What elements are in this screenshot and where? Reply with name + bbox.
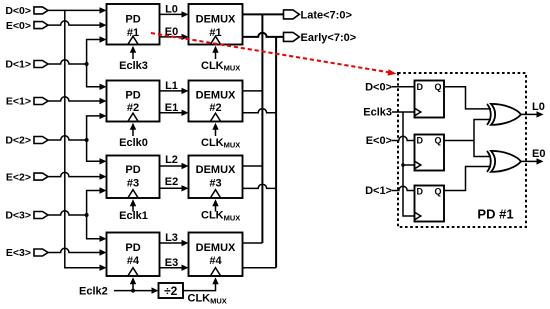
clock arrow Eclk0 into PD#2	[119, 123, 148, 149]
divider /2 box	[159, 283, 184, 298]
detail wire Eclk3 vertical to DFF2/DFF3 clk	[403, 112, 415, 216]
input pad D<0>	[5, 5, 48, 17]
PD #4	[107, 233, 160, 277]
Late bus vertical	[261, 14, 263, 243]
wire D<2> from pad to node (hop over D<0> vertical)	[48, 136, 87, 140]
XOR gate X2	[487, 151, 521, 172]
wire DEMUX#2 out2 to Early bus (hop)	[243, 109, 277, 113]
wire E2 PD#3 to DEMUX#3	[160, 176, 189, 192]
svg-text:DEMUX: DEMUX	[196, 164, 236, 176]
svg-text:DEMUX: DEMUX	[196, 242, 236, 254]
wire XOR1 output L0	[521, 101, 545, 118]
input pad D<3>	[5, 210, 48, 222]
wire divider to DEMUX#4 clock	[183, 277, 219, 290]
svg-text:D<0>: D<0>	[5, 5, 31, 17]
wire DEMUX#3 out1 to Late bus	[243, 165, 263, 167]
detail wire E<0> to DFF2 D (hop over Eclk3 vertical)	[392, 136, 415, 140]
wire L0 PD#1 to DEMUX#1	[160, 4, 189, 18]
wire E1 PD#2 to DEMUX#2	[160, 102, 189, 116]
node Eclk2 junction	[131, 289, 135, 293]
wire DEMUX#2 out1 to Late bus	[243, 90, 263, 92]
DEMUX #2	[189, 81, 243, 122]
wire D<1> from pad to node (hop over D<0> vertical)	[48, 60, 87, 64]
clock arrow CLKMUX into DEMUX#1	[201, 46, 240, 73]
clock arrow Eclk3 into PD#1	[119, 46, 148, 72]
wire DEMUX#1 out2 to Early pad (bus, hop over Late bus)	[243, 33, 286, 37]
svg-text:L1: L1	[165, 80, 178, 92]
detail wire D<0> to DFF1 D	[392, 86, 415, 88]
wire XOR2 output E0	[521, 148, 545, 165]
wire DFF2 Q to XOR1 in2 and XOR2 in1	[444, 120, 492, 157]
svg-text:E<0>: E<0>	[6, 20, 31, 32]
svg-text:Early<7:0>: Early<7:0>	[301, 32, 357, 44]
dashed detail box PD#1 internals	[398, 73, 526, 227]
wire D<1> down to PD#2 in1	[87, 64, 107, 90]
svg-text:Q: Q	[435, 187, 442, 197]
svg-text:D: D	[417, 187, 424, 197]
svg-text:#3: #3	[209, 178, 221, 190]
svg-text:E0: E0	[532, 148, 545, 160]
svg-text:D: D	[417, 136, 424, 146]
svg-text:#4: #4	[209, 255, 222, 267]
svg-text:PD: PD	[125, 14, 140, 26]
DEMUX #4	[189, 233, 243, 277]
detail wire Eclk3 to DFF1 clk	[392, 111, 415, 113]
wire DFF1 Q to XOR1 in1	[444, 87, 491, 109]
node Eclk3/DFF2 clk junction	[401, 163, 405, 167]
wire D<0> vertical feedback to PD#4 in3	[65, 10, 107, 271]
svg-text:L0: L0	[532, 101, 545, 113]
svg-text:D<1>: D<1>	[365, 185, 392, 197]
svg-text:E<1>: E<1>	[6, 96, 31, 108]
wire L2 PD#3 to DEMUX#3	[160, 154, 189, 169]
wire D<1> up to PD#1 in3	[87, 36, 107, 64]
clock arrow CLKMUX into DEMUX#2	[201, 123, 240, 150]
wire D<0> to PD#1 in1	[48, 7, 107, 13]
output pad Late<7:0>	[284, 9, 352, 21]
wire E<3> to PD#4 in2 (hop over D<0> vertical)	[48, 248, 107, 255]
wire D<3> down to PD#4 in1	[87, 215, 107, 242]
detail wire Eclk3 branch to DFF2 clk	[403, 164, 415, 166]
wire L1 PD#2 to DEMUX#2	[160, 80, 189, 94]
svg-text:E2: E2	[165, 176, 178, 188]
svg-text:DEMUX: DEMUX	[196, 89, 236, 101]
wire D<2> down to PD#3 in1	[87, 140, 107, 165]
wire E0 PD#1 to DEMUX#1	[160, 26, 189, 40]
svg-text:L0: L0	[165, 4, 178, 16]
svg-text:E<3>: E<3>	[6, 247, 31, 259]
svg-text:Q: Q	[435, 136, 442, 146]
svg-text:Eclk1: Eclk1	[119, 210, 148, 222]
svg-text:PD: PD	[125, 242, 140, 254]
clock arrow CLKMUX into DEMUX#3	[201, 199, 240, 222]
svg-text:Q: Q	[435, 82, 442, 92]
node D<1> junction	[85, 62, 89, 66]
svg-text:PD: PD	[125, 89, 140, 101]
output pad Early<7:0>	[284, 32, 357, 44]
input pad E<0>	[6, 20, 48, 32]
wire D<2> up to PD#2 in3	[87, 113, 107, 140]
XOR gate X1	[487, 104, 521, 125]
wire DEMUX#4 out1 to Late bus	[243, 242, 263, 244]
red dashed callout arrow	[151, 33, 397, 76]
input pad E<2>	[6, 171, 48, 183]
svg-text:Eclk0: Eclk0	[119, 137, 148, 149]
svg-text:E<0>: E<0>	[366, 135, 392, 147]
wire L3 PD#4 to DEMUX#4	[160, 232, 189, 246]
wire E<2> to PD#3 in2 (hop over D<0> vertical)	[48, 172, 107, 179]
clock arrow Eclk1 into PD#3	[119, 199, 148, 222]
svg-text:E1: E1	[165, 102, 178, 114]
flip-flop U3 (DFF3)	[415, 186, 445, 222]
svg-text:Eclk3: Eclk3	[119, 60, 148, 72]
DEMUX #3	[189, 156, 243, 199]
svg-text:E3: E3	[165, 257, 178, 269]
svg-text:D<2>: D<2>	[5, 135, 31, 147]
node D<2> junction	[85, 138, 89, 142]
svg-text:#4: #4	[127, 255, 140, 267]
svg-text:PD #1: PD #1	[477, 207, 513, 222]
svg-text:Late<7:0>: Late<7:0>	[301, 9, 352, 21]
PD #1	[107, 4, 160, 45]
svg-text:L2: L2	[165, 154, 178, 166]
flip-flop U2 (DFF2)	[415, 135, 445, 171]
svg-text:D<1>: D<1>	[5, 59, 31, 71]
PD #3	[107, 156, 160, 199]
wire E3 PD#4 to DEMUX#4	[160, 257, 189, 271]
Early bus vertical	[275, 37, 277, 268]
svg-text:L3: L3	[165, 232, 178, 244]
wire D<3> up to PD#3 in3	[87, 187, 107, 215]
wire D<3> from pad to node (hop over D<0> vertical)	[48, 211, 87, 215]
detail wire D<1> to DFF3 D (hop over Eclk3 vertical)	[392, 186, 415, 190]
input pad E<3>	[6, 247, 48, 259]
DEMUX #1	[189, 4, 243, 45]
svg-text:D<3>: D<3>	[5, 210, 31, 222]
node D<3> junction	[85, 213, 89, 217]
wire E<1> to PD#2 in2 (hop over D<0> vertical)	[48, 97, 107, 104]
svg-text:Eclk2: Eclk2	[79, 286, 108, 298]
svg-text:Eclk3: Eclk3	[363, 107, 392, 119]
wire Eclk2 to divider	[114, 287, 159, 293]
svg-text:E<2>: E<2>	[6, 171, 31, 183]
wire DEMUX#3 out2 to Early bus (hop)	[243, 184, 277, 188]
wire DFF3 Q to XOR2 in2	[444, 167, 491, 191]
svg-text:DEMUX: DEMUX	[196, 14, 236, 26]
PD #2	[107, 81, 160, 122]
flip-flop U1 (DFF1)	[415, 81, 445, 118]
svg-text:D: D	[417, 82, 424, 92]
input pad E<1>	[6, 96, 48, 108]
input pad D<2>	[5, 135, 48, 147]
svg-text:#3: #3	[127, 178, 139, 190]
input pad D<1>	[5, 59, 48, 71]
svg-text:÷2: ÷2	[164, 284, 178, 298]
wire DEMUX#4 out2 to Early bus	[243, 267, 277, 269]
svg-text:PD: PD	[125, 164, 140, 176]
clock arrow Eclk2 into PD#4	[130, 277, 136, 290]
wire DEMUX#1 out1 to Late pad (bus)	[243, 13, 286, 15]
wire E<0> to PD#1 in2 (hop over D<0> vertical)	[48, 21, 107, 28]
svg-text:D<0>: D<0>	[365, 81, 392, 93]
